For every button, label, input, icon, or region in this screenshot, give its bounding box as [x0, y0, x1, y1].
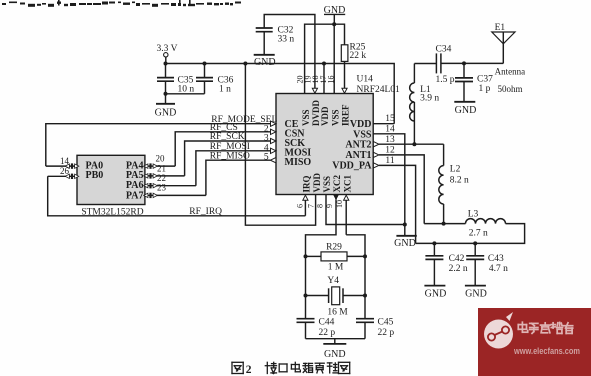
svg-text:Antenna: Antenna: [495, 67, 525, 77]
svg-text:NRF24L01: NRF24L01: [357, 85, 401, 95]
caption: figure 2 interface circuit diagram: [232, 362, 243, 373]
svg-text:VDD: VDD: [320, 106, 330, 126]
svg-text:1 n: 1 n: [219, 85, 231, 95]
svg-text:22 p: 22 p: [378, 328, 395, 338]
wire RF_MODE_SEL / node CE: [46, 124, 271, 166]
svg-text:14: 14: [60, 156, 70, 166]
svg-text:RF_SCK: RF_SCK: [210, 132, 245, 142]
node C43: [473, 241, 477, 245]
svg-text:10 n: 10 n: [178, 85, 195, 95]
wire top GND bus: [305, 24, 345, 93]
svg-text:GND: GND: [155, 108, 177, 119]
svg-text:2.7 n: 2.7 n: [469, 228, 488, 238]
svg-text:R29: R29: [326, 243, 342, 253]
svg-text:12: 12: [385, 145, 395, 155]
svg-text:C42: C42: [449, 254, 465, 264]
svg-text:www.elecfans.com: www.elecfans.com: [513, 346, 580, 356]
svg-text:PA7: PA7: [126, 190, 144, 201]
svg-text:VSS: VSS: [322, 176, 332, 193]
svg-text:16 M: 16 M: [327, 308, 348, 318]
svg-text:XC2: XC2: [332, 175, 342, 193]
wire XC1 to crystal right: [346, 235, 365, 252]
capacitor C43 4.7n: [474, 243, 476, 255]
pin 13 ANT2: [373, 142, 379, 147]
op-amp U14 NRF24L01 chip body: [276, 94, 373, 195]
resistor R25 22k: [341, 45, 348, 62]
svg-text:33 n: 33 n: [278, 35, 295, 45]
node rail-pin18: [322, 62, 326, 66]
node ANT2-L1: [412, 142, 416, 146]
svg-text:C43: C43: [488, 254, 504, 264]
svg-text:22: 22: [157, 173, 166, 183]
ground below C32: [254, 54, 275, 56]
ground below crystal: [334, 339, 336, 344]
svg-text:VSS: VSS: [301, 109, 311, 126]
svg-text:1 p: 1 p: [479, 84, 491, 94]
wire pin18 VDD: [323, 64, 325, 94]
svg-text:GND: GND: [425, 289, 447, 300]
node C35 bottom: [164, 92, 168, 96]
svg-text:13: 13: [385, 135, 395, 145]
wire 3.3V to pin 7 VDD: [245, 64, 315, 226]
wire crystal right vertical: [364, 252, 366, 318]
wire RF_MOSI: [196, 151, 271, 186]
node GND bus/pin17: [332, 22, 336, 26]
pin 22 PA6: [145, 185, 196, 187]
node Y4 right: [363, 294, 367, 298]
resistor R29 1M: [306, 255, 322, 257]
capacitor C35: [165, 64, 167, 78]
wire L3 to C43/C42 return: [416, 224, 525, 244]
inductor L3 2.7n: [466, 219, 506, 224]
pin 10 XC1 arrow: [345, 200, 347, 235]
wire RF_CS: [175, 132, 271, 166]
capacitor C44 22p: [297, 318, 315, 320]
node Y4 left: [304, 294, 308, 298]
svg-text:ANT1: ANT1: [345, 150, 371, 161]
pin 21 PA5: [145, 175, 185, 177]
svg-text:IRQ: IRQ: [302, 175, 312, 192]
node rail-C36: [203, 62, 207, 66]
wire XC2 to crystal left: [306, 200, 337, 252]
wire L1 top to C34: [414, 63, 436, 65]
svg-text:4.7 n: 4.7 n: [489, 264, 508, 274]
capacitor C32: [264, 15, 315, 91]
node VSS-GND: [403, 223, 407, 227]
node C42: [432, 241, 436, 245]
wire pin17 VSS: [333, 24, 335, 93]
inductor L1 3.9n: [413, 64, 415, 84]
svg-text:VDD: VDD: [312, 173, 322, 193]
pin 11 VDD_PA: [373, 163, 379, 168]
svg-text:GND: GND: [455, 105, 477, 116]
svg-text:RF_IRQ: RF_IRQ: [189, 207, 222, 217]
svg-text:1 M: 1 M: [328, 263, 344, 273]
svg-text:7: 7: [307, 204, 316, 208]
svg-text:C37: C37: [477, 74, 493, 84]
svg-text:22 k: 22 k: [350, 51, 367, 61]
svg-text:PB0: PB0: [86, 170, 104, 181]
svg-text:8.2 n: 8.2 n: [450, 176, 469, 186]
svg-text:1.5 p: 1.5 p: [436, 75, 455, 85]
node R29 right: [363, 254, 367, 258]
ground below C37: [454, 101, 475, 103]
svg-text:3: 3: [264, 134, 269, 144]
node R29 left: [304, 254, 308, 258]
pin 12 ANT1: [373, 152, 379, 157]
node rail-VDD7 branch: [243, 62, 247, 66]
transistor U? STM32L152RD chip body: [77, 155, 145, 204]
svg-text:6: 6: [296, 204, 305, 208]
svg-text:2: 2: [246, 364, 252, 376]
svg-text:C34: C34: [436, 45, 452, 55]
capacitor C34 1.5p: [435, 53, 437, 73]
pin 23 PA7: [145, 194, 206, 196]
svg-text:GND: GND: [324, 349, 346, 360]
ground below C42: [424, 285, 445, 287]
capacitor C42 2.2n: [433, 243, 435, 255]
node antenna-C37: [462, 61, 466, 65]
pin 26 PB0: [48, 175, 77, 177]
capacitor C37 1p: [463, 63, 465, 77]
svg-text:Y4: Y4: [327, 276, 339, 286]
inductor L2 8.2n: [443, 144, 445, 165]
svg-text:L3: L3: [468, 210, 479, 220]
svg-text:23: 23: [157, 183, 167, 193]
pin 19 DVDD arrow: [312, 88, 317, 93]
ground below C43: [465, 285, 486, 287]
wire ANT1 bus: [424, 223, 465, 225]
svg-text:L2: L2: [450, 165, 461, 175]
wire RF_MISO: [206, 160, 271, 195]
svg-text:5: 5: [264, 153, 269, 163]
wire C34 to antenna: [441, 62, 503, 64]
svg-text:14: 14: [385, 124, 395, 134]
svg-text:U14: U14: [357, 75, 374, 85]
svg-text:11: 11: [385, 156, 394, 166]
svg-text:15: 15: [385, 114, 395, 124]
svg-text:2.2 n: 2.2 n: [449, 264, 468, 274]
svg-text:26: 26: [60, 166, 70, 176]
node rail-C35: [164, 62, 168, 66]
svg-text:21: 21: [157, 163, 166, 173]
svg-text:VSS: VSS: [330, 109, 340, 126]
wire RF_IRQ: [48, 176, 306, 216]
pin 20 PA4: [145, 165, 175, 167]
svg-text:8: 8: [315, 204, 324, 208]
svg-text:MISO: MISO: [285, 157, 312, 168]
svg-text:XC1: XC1: [342, 175, 352, 193]
wire pin 14 VSS to GND: [373, 134, 405, 236]
svg-text:20: 20: [156, 154, 166, 164]
capacitor C45 22p: [356, 318, 374, 320]
pin 14 PA0: [46, 165, 77, 167]
svg-text:C44: C44: [319, 318, 335, 328]
watermark block elecfans: [478, 308, 591, 376]
node L2 bottom: [442, 222, 446, 226]
svg-text:VDD_PA: VDD_PA: [332, 161, 372, 172]
svg-text:22 p: 22 p: [319, 328, 336, 338]
svg-text:C45: C45: [378, 318, 394, 328]
ground below C35: [165, 94, 167, 104]
cropped text line at top of page: [2, 0, 241, 7]
pin 6 IRQ arrow: [304, 200, 306, 216]
svg-text:RF_MISO: RF_MISO: [210, 151, 250, 161]
wire 3.3V rail: [166, 64, 395, 124]
wire pin 8 VSS to GND: [326, 195, 405, 225]
svg-text:16: 16: [327, 76, 336, 84]
capacitor C36: [204, 64, 206, 78]
svg-text:3.9 n: 3.9 n: [420, 94, 439, 104]
ground right (pin14/pin8): [396, 235, 416, 237]
svg-text:GND: GND: [254, 57, 276, 68]
wire RF_SCK: [185, 141, 271, 176]
wire C35-C36 bottom: [166, 93, 205, 95]
wire crystal bottom: [306, 338, 366, 340]
pin 9 XC2 arrow: [333, 195, 338, 200]
wire crystal left vertical: [305, 252, 307, 318]
svg-text:GND: GND: [465, 289, 487, 300]
wire pin 15 VDD: [373, 123, 394, 125]
svg-text:GND: GND: [394, 238, 416, 249]
svg-text:50ohm: 50ohm: [498, 84, 523, 94]
